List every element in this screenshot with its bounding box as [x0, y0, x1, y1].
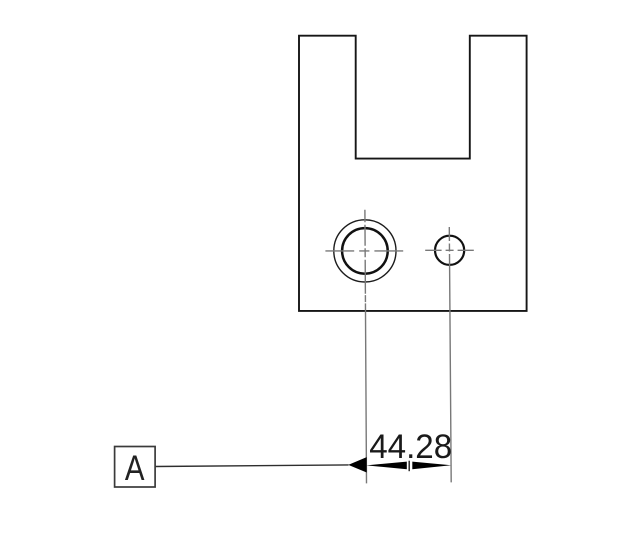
dimension line center tick — [408, 461, 410, 472]
datum leader line — [155, 465, 348, 467]
datum feature triangle (filled, base on left extension line) — [348, 457, 366, 472]
hole H2 circle — [435, 236, 464, 265]
center line H1 horizontal — [325, 250, 403, 252]
center line H2 horizontal — [425, 249, 474, 251]
hole H1 outer circle (thread major dia) — [334, 220, 396, 282]
dimension arrow right (tip on right extension line) — [412, 462, 451, 470]
center line H1 vertical / extension line to dimension — [365, 210, 367, 484]
svg-text:A: A — [125, 448, 145, 487]
hole H1 inner circle (bore) — [342, 228, 388, 274]
dimension arrow left (tip on left extension line) — [366, 462, 407, 470]
svg-text:44.28: 44.28 — [369, 428, 452, 466]
center line H2 vertical / extension line to dimension — [449, 227, 451, 482]
datum label frame A — [115, 447, 156, 488]
part outline (clevis fork body) — [299, 36, 527, 311]
